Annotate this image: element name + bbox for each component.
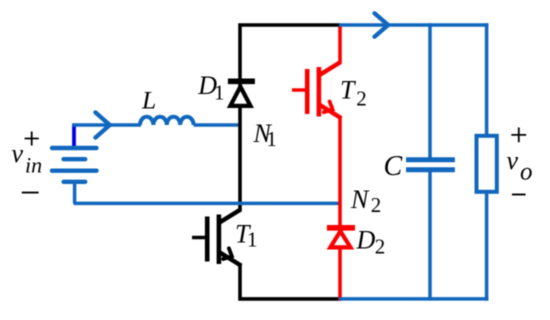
svg-text:1: 1 bbox=[247, 228, 258, 252]
svg-text:D: D bbox=[356, 226, 376, 255]
label &#8722; (input) bbox=[22, 192, 39, 194]
label + (input) bbox=[25, 132, 39, 146]
wire: right vertical rail bbox=[485, 23, 489, 301]
wire: T1 emitter to bottom rail (black) bbox=[240, 264, 341, 299]
current arrow (input side) bbox=[95, 112, 109, 137]
resistor load R (output) bbox=[477, 136, 497, 192]
svg-text:v: v bbox=[12, 139, 24, 168]
svg-text:2: 2 bbox=[371, 193, 382, 217]
wire: source to inductor (top-left rail) bbox=[72, 123, 141, 127]
svg-text:1: 1 bbox=[266, 127, 277, 151]
svg-text:o: o bbox=[520, 159, 533, 186]
wire: inductor to node N1 bbox=[194, 123, 242, 127]
svg-text:1: 1 bbox=[214, 81, 225, 105]
wire: T2 collector lead (red) bbox=[338, 27, 342, 64]
svg-text:2: 2 bbox=[356, 87, 367, 111]
svg-text:in: in bbox=[25, 153, 42, 178]
wire: bottom rail from battery to node N2 bbox=[74, 202, 342, 206]
label + (output) bbox=[511, 128, 526, 143]
capacitor C bbox=[406, 23, 455, 300]
inductor L bbox=[140, 117, 194, 125]
svg-text:2: 2 bbox=[375, 234, 386, 258]
svg-text:C: C bbox=[384, 151, 403, 182]
wire: bottom rail blue segment bbox=[339, 297, 488, 301]
svg-text:N: N bbox=[350, 185, 370, 214]
wire: source positive lead (dark blue stub) bbox=[72, 123, 76, 149]
voltage source v_in (battery) bbox=[52, 148, 97, 182]
diode D2 bbox=[327, 228, 355, 248]
wire: top rail blue segment bbox=[339, 23, 488, 27]
svg-text:v: v bbox=[507, 146, 519, 175]
svg-text:T: T bbox=[340, 75, 356, 104]
wire: black branch - top rail segment and D1 column bbox=[240, 25, 341, 211]
wire: T2 emitter / node N2 / D2 column (red) bbox=[338, 117, 342, 301]
wire: battery negative lead bbox=[73, 182, 77, 204]
svg-text:L: L bbox=[141, 85, 156, 114]
diode D1 bbox=[228, 81, 255, 106]
label &#8722; (output) bbox=[512, 194, 526, 196]
transistor T2 (IGBT, red) bbox=[292, 62, 341, 118]
transistor T1 (IGBT) bbox=[192, 209, 241, 265]
current arrow (output side) bbox=[375, 13, 389, 36]
